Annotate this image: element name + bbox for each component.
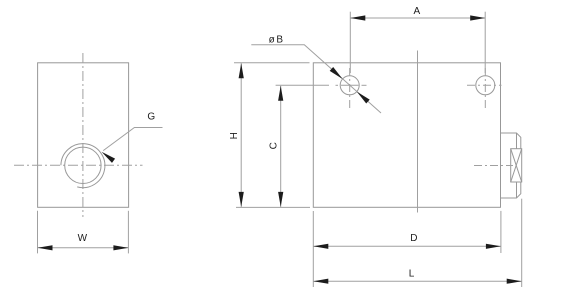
label oB text bbox=[269, 35, 284, 46]
valve element box with cross bbox=[511, 149, 522, 182]
boss horizontal centerline bbox=[474, 165, 513, 167]
port hole circle B bbox=[340, 76, 359, 95]
dimension D arrowheads bbox=[313, 244, 501, 249]
second circle vertical centerline bbox=[484, 68, 486, 110]
leader line for G bbox=[103, 128, 162, 151]
dimension C extension line bbox=[276, 84, 329, 86]
dimension D and L shared left extension line bbox=[312, 211, 314, 287]
oB leader arrowhead lower bbox=[355, 90, 370, 104]
threaded port inner circle bbox=[65, 147, 101, 183]
dimension D text bbox=[410, 233, 417, 244]
dimension A extension lines bbox=[350, 12, 485, 73]
second port hole circle bbox=[476, 76, 495, 95]
circle B horizontal centerline bbox=[336, 84, 367, 86]
svg-text:W: W bbox=[78, 233, 88, 244]
dimension H extension line top bbox=[234, 62, 310, 64]
leader line for oB bbox=[251, 45, 381, 113]
dimension A text bbox=[413, 6, 420, 17]
circle B vertical centerline bbox=[349, 68, 351, 110]
dimension D extension line right bbox=[500, 211, 502, 253]
dimension L text bbox=[409, 268, 415, 279]
right view block outline bbox=[313, 63, 500, 208]
dimension C line bbox=[280, 86, 282, 207]
oB leader arrowhead upper bbox=[330, 67, 345, 81]
svg-text:G: G bbox=[147, 111, 155, 122]
right view middle parting line bbox=[417, 51, 419, 213]
svg-text:L: L bbox=[409, 268, 415, 279]
label G bbox=[147, 111, 155, 122]
second circle horizontal centerline bbox=[467, 84, 502, 86]
svg-text:A: A bbox=[413, 6, 420, 17]
dimension H extension line bottom bbox=[236, 206, 310, 208]
dimension W extension lines bbox=[38, 211, 129, 254]
threaded port outer thread arc bbox=[61, 144, 105, 188]
left view vertical centerline bbox=[82, 53, 84, 217]
dimension W arrowheads bbox=[38, 245, 129, 250]
cartridge boss chamfer edge lines bbox=[516, 133, 518, 198]
dimension D line bbox=[313, 245, 501, 247]
dimension A line bbox=[350, 17, 485, 19]
dimension H arrowheads bbox=[239, 63, 244, 207]
dimension W text bbox=[78, 233, 88, 244]
arrowhead of G leader bbox=[100, 150, 115, 163]
dimension H text bbox=[229, 132, 240, 139]
dimension A arrowheads bbox=[350, 15, 485, 20]
cartridge boss outline bbox=[501, 133, 521, 198]
dimension W line bbox=[38, 247, 129, 249]
left view horizontal centerline bbox=[14, 164, 143, 166]
dimension H line bbox=[240, 63, 242, 207]
svg-text:D: D bbox=[410, 233, 417, 244]
dimension L line bbox=[313, 280, 521, 282]
dimension C arrowheads bbox=[278, 86, 283, 207]
svg-text:H: H bbox=[229, 132, 240, 139]
dimension L arrowheads bbox=[313, 279, 521, 284]
left view block outline bbox=[38, 63, 129, 208]
dimension C text bbox=[268, 142, 279, 149]
svg-text:C: C bbox=[268, 142, 279, 149]
dimension L extension line right bbox=[521, 199, 523, 287]
svg-text:øB: øB bbox=[269, 35, 284, 46]
